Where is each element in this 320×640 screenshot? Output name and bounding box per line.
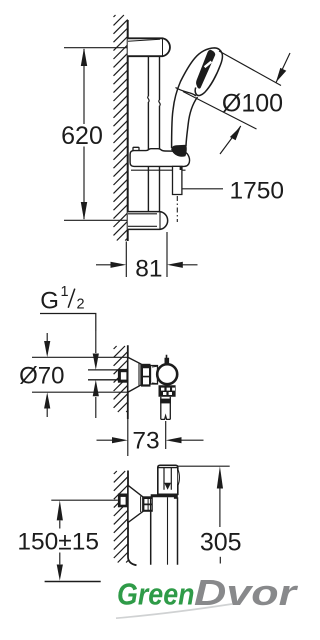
- wall hatching (bottom): [114, 471, 128, 563]
- wall surface line (bottom) with hook: [128, 471, 137, 566]
- dimension Ø70: dimension line segments and arrows: [46, 333, 48, 417]
- svg-text:620: 620: [61, 122, 103, 150]
- wall hatching (middle): [114, 346, 128, 412]
- dimension 305: dimension line and up arrow: [219, 488, 221, 527]
- hose below valve: [161, 397, 171, 420]
- hose top-right dark notch: [180, 167, 183, 170]
- wall surface line (middle), continues as 73 left extension: [127, 345, 129, 419]
- dimension Ø100: upper extension line: [219, 51, 281, 86]
- dimension Ø100: upper arrow with tail: [276, 53, 290, 83]
- supply pipe nipple: [88, 370, 118, 380]
- svg-text:1: 1: [61, 284, 69, 300]
- logo swoosh: [116, 604, 232, 618]
- svg-text:Ø100: Ø100: [222, 90, 283, 118]
- knurled ring (dark with facets): [141, 364, 151, 387]
- dimension 150±15: top extension at supply line, arrows: [59, 521, 61, 565]
- svg-text:Dvor: Dvor: [194, 572, 298, 613]
- MIDDLE FIGURE: shower valve side view: [32, 314, 204, 457]
- dimension 620: vertical dimension line with gap for text: [83, 49, 85, 219]
- bottom reference line: [45, 581, 101, 583]
- svg-text:81: 81: [135, 255, 162, 282]
- supply line to nut / 150 extension line: [51, 499, 118, 501]
- hand shower: inner handle edge: [186, 97, 198, 146]
- temperature marker triangle: [164, 483, 171, 490]
- svg-text:G: G: [40, 287, 59, 314]
- hex nut on pipe (dark): [118, 369, 128, 383]
- hand shower: head/handle seam: [176, 88, 197, 97]
- svg-text:305: 305: [200, 529, 242, 557]
- leader line for 1750: [182, 188, 223, 190]
- dimension Ø70: extension lines: [32, 357, 128, 392]
- escutcheon cone (bottom view): [128, 485, 143, 522]
- svg-text:1750: 1750: [230, 177, 285, 204]
- shower rail tube with break squiggles: [148, 56, 159, 211]
- svg-text:Ø70: Ø70: [19, 363, 64, 390]
- hand shower: handle and head outline: [172, 48, 223, 148]
- vertical pipe body: [151, 497, 178, 565]
- dimension Ø100: lower extension line: [183, 92, 257, 130]
- knurled hose nut under valve (dark): [159, 385, 176, 397]
- valve head (front): [158, 465, 180, 494]
- dimension 620: up arrow: [81, 48, 87, 66]
- dimension 81: left extension line: [125, 242, 127, 278]
- BOTTOM FIGURE: shower valve front/side with heights: [45, 465, 230, 581]
- G 1/2 dimension line and arrows at pipe: [95, 331, 97, 418]
- top mounting bracket: [128, 38, 170, 56]
- dimension 81: right extension line: [166, 232, 168, 277]
- escutcheon cone (side view): [128, 357, 141, 392]
- shower holder / glider on rail: [130, 147, 189, 170]
- dimension 81: dimension line with outside arrows: [96, 264, 198, 266]
- pipe top-right dark notch: [174, 495, 178, 499]
- G 1/2 label leader: underline and bend: [40, 314, 96, 332]
- dimension 73: dimension line with outside arrows: [97, 439, 204, 441]
- bottom mounting bracket: [128, 212, 168, 230]
- temperature stub on top of valve: [165, 355, 170, 365]
- dark bar under valve head: [151, 494, 178, 497]
- svg-text:2: 2: [76, 297, 84, 313]
- valve body circle (handle front): [157, 364, 177, 384]
- wall surface line (top): [127, 20, 129, 241]
- dimension 73: right extension line: [165, 421, 167, 449]
- collar between ring and valve body: [151, 366, 158, 385]
- knurled ring (dark): [143, 496, 153, 512]
- dimension 620: bottom extension line: [64, 219, 128, 221]
- svg-text:Green: Green: [117, 577, 195, 612]
- hex nut behind wall (dark): [118, 494, 128, 508]
- dimension Ø100: lower arrow with tail: [220, 126, 241, 154]
- dimension 305: dash below text: [219, 557, 221, 564]
- hand shower: spray face (dark lens): [196, 50, 215, 89]
- TOP FIGURE: shower rail set side view: [64, 15, 290, 277]
- hose dark band: [160, 399, 171, 404]
- spray face white slash: [205, 62, 212, 68]
- hand shower grip end (dark): [171, 145, 187, 157]
- dimension 305: top extension line: [178, 465, 230, 467]
- hose outlet below holder: [173, 166, 182, 194]
- wall hatching (top): [114, 15, 128, 241]
- dimension 620: down arrow: [81, 202, 87, 220]
- hose continuation dash-dot centerline: [176, 196, 178, 222]
- svg-text:150±15: 150±15: [17, 528, 99, 555]
- dimension 620: top extension line: [64, 47, 128, 49]
- svg-text:73: 73: [132, 428, 159, 455]
